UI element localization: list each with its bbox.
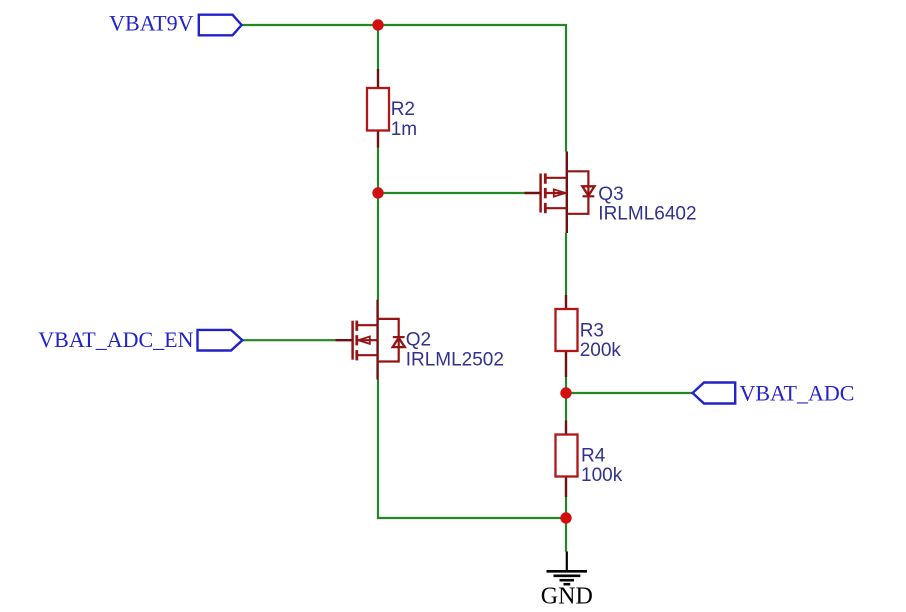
resistor R2 (367, 69, 417, 148)
svg-text:IRLML6402: IRLML6402 (598, 203, 696, 224)
wire VBAT_ADC_EN flag to Q2 gate (243, 339, 336, 341)
wire junction3 to VBAT_ADC flag (566, 392, 693, 394)
net flag VBAT9V (109, 11, 241, 36)
wire R2 bottom to junction2 (377, 148, 379, 194)
svg-text:1m: 1m (391, 119, 417, 140)
svg-text:R3: R3 (580, 320, 604, 341)
wire junction1 to R2 top (377, 25, 379, 69)
resistor R3 (556, 295, 622, 377)
wire R4 bottom to junction4 (565, 497, 567, 518)
wire VBAT9V top rail (242, 25, 567, 152)
transistor Q2 IRLML2502 (336, 300, 405, 380)
ground GND (547, 552, 588, 585)
svg-text:200k: 200k (580, 340, 622, 361)
svg-text:IRLML2502: IRLML2502 (406, 349, 504, 370)
resistor R4 (556, 421, 623, 498)
wire R3 bottom through junction3 to R4 top (565, 377, 567, 421)
junction node VBAT9V/R2 (372, 19, 383, 30)
wire Q3 drain to R3 (565, 233, 567, 295)
svg-text:Q2: Q2 (406, 330, 431, 351)
junction node R4/Q2/GND (560, 512, 571, 523)
wire junction4 to ground (565, 518, 567, 552)
svg-text:R2: R2 (391, 99, 415, 120)
svg-text:Q3: Q3 (598, 184, 623, 205)
wire junction2 down to Q2 drain (377, 193, 379, 300)
svg-text:VBAT9V: VBAT9V (109, 11, 193, 36)
junction node R2/Q3 gate/Q2 (372, 187, 383, 198)
wire junction2 to Q3 gate (378, 192, 525, 194)
svg-text:VBAT_ADC_EN: VBAT_ADC_EN (38, 327, 193, 352)
wire Q2 source to bottom rail to junction4 (378, 380, 566, 519)
net flag VBAT_ADC_EN (38, 327, 242, 352)
transistor Q3 IRLML6402 (525, 152, 595, 234)
svg-text:VBAT_ADC: VBAT_ADC (740, 381, 855, 406)
svg-text:GND: GND (541, 584, 593, 610)
svg-text:R4: R4 (581, 445, 606, 466)
net flag VBAT_ADC (693, 381, 855, 406)
svg-text:100k: 100k (581, 465, 623, 486)
junction node R3/R4/VBAT_ADC (560, 387, 571, 398)
